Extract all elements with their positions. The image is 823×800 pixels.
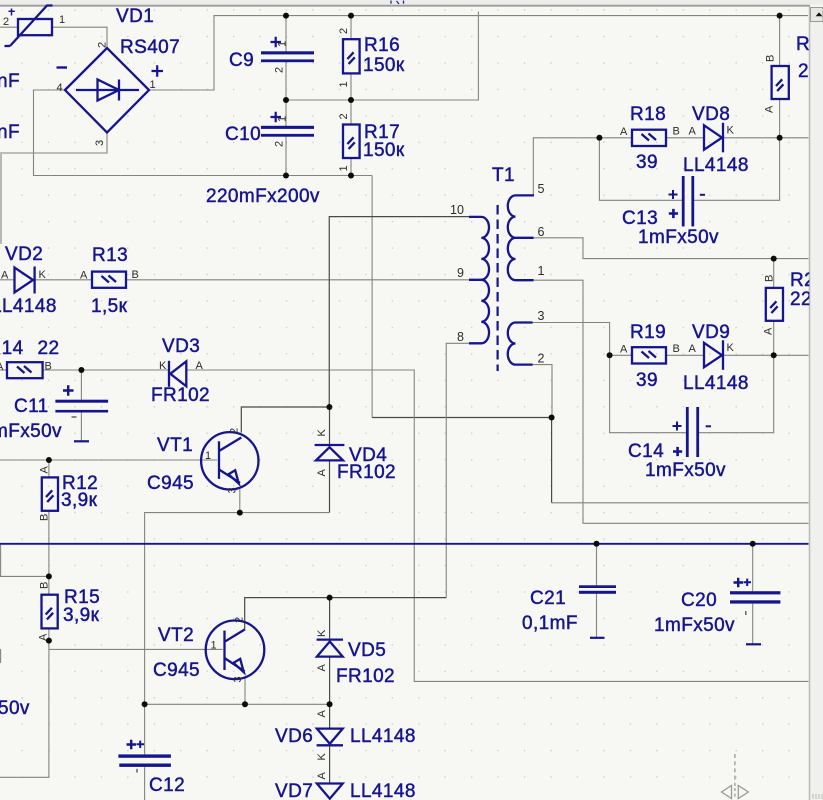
wire: VT1 emitter row	[145, 513, 330, 705]
svg-text:B: B	[132, 269, 139, 281]
wire: R13 to T1 pin9	[126, 279, 469, 281]
svg-text:39: 39	[636, 152, 658, 173]
wire: bottom rail corner down to pin2 row	[371, 176, 373, 418]
node R15/VT2 base	[46, 638, 52, 644]
wire: VT1 collector to node	[241, 407, 329, 433]
svg-text:2: 2	[538, 352, 545, 366]
resistor R16	[338, 28, 405, 88]
wire: C20 bottom lead	[752, 604, 754, 644]
svg-text:2: 2	[3, 16, 9, 28]
svg-text:2: 2	[229, 428, 241, 434]
svg-text:RS407: RS407	[120, 37, 180, 58]
svg-text:1: 1	[211, 640, 217, 652]
wire: C9 top lead	[285, 16, 287, 52]
svg-text:VD2: VD2	[5, 244, 43, 265]
wire: R18 row segments	[599, 137, 632, 139]
svg-text:B: B	[673, 343, 680, 355]
svg-text:C9: C9	[229, 50, 254, 71]
resistor R20 (clipped at right)	[764, 34, 811, 113]
wire: T1 pin5 to R18 junction	[533, 138, 599, 196]
svg-text:2: 2	[234, 617, 246, 623]
capacitor C14	[628, 407, 726, 481]
svg-text:C11: C11	[14, 396, 49, 417]
svg-text:R13: R13	[92, 245, 128, 266]
wire: R12 top lead	[48, 460, 50, 477]
svg-text:FR102: FR102	[336, 666, 395, 687]
wire: R19 row segments	[610, 354, 632, 356]
svg-text:B: B	[39, 514, 51, 521]
node VT1 emitter	[237, 510, 243, 516]
wire: C21 bottom lead	[596, 594, 598, 637]
svg-text:C13: C13	[622, 208, 658, 229]
wire: VT1 emitter lead	[239, 489, 241, 512]
svg-text:VD8: VD8	[692, 104, 730, 125]
wire: C10 bottom lead	[285, 136, 287, 176]
node rail/C21	[594, 541, 600, 547]
svg-text:VD5: VD5	[348, 640, 386, 661]
wire: thermistor to bridge pin2	[52, 27, 107, 48]
wire: R16 bottom lead	[350, 73, 352, 100]
top toolbar band	[0, 0, 823, 5]
svg-text:LL4148: LL4148	[0, 296, 57, 317]
svg-text:T1: T1	[492, 165, 515, 186]
wire: VD6 to VD7	[329, 747, 331, 784]
power rail (blue) y=543.8	[0, 543, 809, 545]
svg-text:1: 1	[338, 165, 350, 171]
svg-text:B: B	[45, 361, 52, 373]
bridge rectifier VD1	[57, 6, 181, 146]
svg-text:A: A	[689, 126, 697, 138]
node VD8 cathode	[777, 135, 783, 141]
capacitor C20	[654, 578, 780, 636]
svg-text:K: K	[159, 360, 167, 372]
svg-text:K: K	[727, 125, 735, 137]
svg-text:LL4148: LL4148	[683, 155, 749, 176]
wire: R14 to VD3	[43, 369, 168, 371]
svg-text:9: 9	[457, 266, 464, 280]
wire: mains input to thermistor	[0, 26, 18, 28]
svg-text:C12: C12	[149, 775, 185, 796]
node C12	[142, 701, 148, 707]
wire: VT1 base row	[0, 459, 217, 461]
wire: VD5 bottom lead	[329, 657, 331, 705]
svg-text:nF: nF	[0, 71, 20, 92]
svg-text:VT1: VT1	[157, 435, 193, 456]
svg-text:2: 2	[338, 28, 350, 34]
wire: left edge stub upper	[0, 545, 2, 577]
thermistor RK (top-left)	[3, 6, 65, 47]
svg-text:A: A	[316, 664, 328, 672]
scrollbar bottom grip	[813, 794, 822, 799]
wire: R17 bottom lead	[350, 158, 352, 176]
capacitor C11	[0, 385, 108, 442]
svg-text:22: 22	[38, 338, 60, 359]
wire: R15 bottom down to bottom left	[0, 629, 49, 778]
wire: bridge pin1 up to top rail	[149, 16, 808, 90]
svg-text:2: 2	[97, 42, 109, 48]
svg-text:B: B	[765, 55, 777, 62]
svg-text:FR102: FR102	[151, 385, 210, 406]
svg-text:R16: R16	[364, 35, 400, 56]
svg-text:1mFx50v: 1mFx50v	[638, 227, 719, 248]
T1 core (dashed)	[497, 205, 499, 371]
svg-text:VD7: VD7	[275, 781, 313, 800]
wire: R20 bottom to VD8 row	[779, 99, 781, 138]
svg-text:3: 3	[232, 676, 244, 682]
wire: VT2 emitter lead	[244, 678, 246, 704]
wire: left edge vertical	[0, 154, 2, 244]
transistor VT2 (C945)	[153, 617, 264, 683]
svg-text:B: B	[39, 582, 51, 589]
wire: VD3 anode to right, down, and bottom rail y=681	[186, 370, 808, 681]
svg-text:A: A	[316, 469, 328, 477]
svg-text:5: 5	[538, 182, 545, 196]
wire: R16 top lead	[350, 16, 352, 40]
svg-text:50v: 50v	[0, 698, 30, 719]
svg-text:R19: R19	[630, 322, 666, 343]
svg-text:220mFx200v: 220mFx200v	[206, 186, 320, 207]
node top rail / C9	[283, 13, 289, 19]
svg-text:A: A	[763, 327, 775, 335]
clipped text in toolbar band	[391, 1, 404, 5]
svg-text:C14: C14	[628, 441, 664, 462]
wire: VT2 base row	[49, 648, 223, 650]
node bottom rail / C10	[283, 173, 289, 179]
svg-text:8: 8	[457, 330, 464, 344]
resistor R18	[620, 104, 680, 173]
right scrollbar track	[810, 7, 823, 800]
resistor R12	[39, 466, 99, 522]
wire: C12 top lead	[144, 704, 146, 754]
T1 primary winding pins 10-9-8	[469, 217, 489, 280]
diode VD4 (cathode up)	[315, 429, 396, 484]
svg-text:0,1mF: 0,1mF	[522, 613, 578, 634]
wire: T1 pin2 net down and right along y=503	[551, 418, 553, 503]
svg-text:B: B	[673, 126, 680, 138]
svg-text:150к: 150к	[363, 55, 405, 76]
capacitor C10	[225, 112, 314, 147]
node VT2 emitter	[242, 701, 248, 707]
svg-text:39: 39	[636, 370, 658, 391]
svg-text:R14: R14	[0, 338, 24, 359]
wire: mid rail y=100 rising to top	[286, 12, 478, 101]
transistor VT1 (C945)	[147, 428, 259, 494]
wire: VT2 emitter row	[145, 703, 330, 705]
resistor R17	[338, 113, 405, 171]
capacitor C9	[229, 37, 314, 73]
svg-text:3: 3	[538, 309, 545, 323]
resistor R21 (clipped at right)	[763, 270, 816, 335]
wire: rail to T1 pin10 and down to VT1 collector node	[329, 217, 469, 407]
node VT2 collector/VD5	[327, 595, 333, 601]
resistor R14	[0, 338, 59, 378]
svg-text:A: A	[764, 105, 776, 113]
node bottom rail / R17	[348, 173, 354, 179]
node VD9 cathode	[771, 352, 777, 358]
T1 winding pins 3-2	[508, 323, 533, 365]
svg-text:A: A	[316, 710, 328, 718]
svg-text:3: 3	[94, 140, 106, 146]
wire: VD2 cathode to R13	[36, 279, 93, 281]
capacitor C13	[622, 176, 719, 248]
wire: VD9 junction down to C14 loop	[610, 355, 687, 432]
diode VD8	[683, 104, 749, 176]
cursor marker (bottom right)	[722, 754, 749, 799]
svg-text:K: K	[316, 753, 328, 761]
svg-text:B: B	[764, 275, 776, 282]
transformer T1	[450, 165, 545, 371]
node R21 top	[771, 256, 777, 262]
scrollbar up button	[811, 8, 823, 22]
wire: VD6 top lead	[329, 704, 331, 728]
node mid rail / C9-C10	[283, 97, 289, 103]
svg-text:3,9к: 3,9к	[63, 605, 100, 626]
svg-text:nF: nF	[0, 122, 20, 143]
capacitor C12	[118, 740, 185, 796]
svg-text:1: 1	[338, 81, 350, 87]
C11 open end bar	[74, 440, 89, 442]
resistor R13	[80, 245, 139, 317]
wire: VD8 junction down to C13 loop	[694, 138, 780, 201]
wire: VD5 top lead	[329, 598, 331, 639]
svg-text:150к: 150к	[363, 140, 405, 161]
svg-text:C945: C945	[147, 473, 194, 494]
node R12-R15	[46, 573, 52, 579]
node mid rail / R16-R17	[348, 97, 354, 103]
svg-text:22: 22	[790, 289, 812, 310]
wire: C14 right plate up to VD9 cathode node	[698, 355, 774, 432]
svg-text:1mFx50v: 1mFx50v	[0, 421, 62, 442]
wire: left edge small stub	[0, 649, 2, 663]
svg-text:VD9: VD9	[692, 322, 730, 343]
svg-text:C20: C20	[681, 590, 717, 611]
svg-text:1: 1	[150, 79, 156, 91]
node VT1 collector/VD4	[326, 404, 332, 410]
wire: top rail down to R20	[779, 16, 781, 66]
capacitor C21	[522, 585, 616, 634]
svg-text:1: 1	[205, 450, 211, 462]
svg-text:3,9к: 3,9к	[61, 490, 98, 511]
svg-text:A: A	[196, 360, 204, 372]
wire: T1 pin3 down to VD9 row	[533, 323, 610, 356]
svg-text:LL4148: LL4148	[683, 373, 749, 394]
svg-text:1: 1	[277, 41, 289, 47]
wire: C11 bottom lead	[80, 412, 82, 440]
diode VD2	[0, 244, 57, 317]
node VT1 base/R12	[46, 457, 52, 463]
node R19 input	[607, 352, 613, 358]
svg-text:A: A	[620, 126, 628, 138]
node VD5/VD6	[327, 701, 333, 707]
wire: bridge pin3 return	[0, 133, 107, 154]
diode VD9	[683, 322, 749, 394]
svg-text:VD1: VD1	[116, 6, 154, 27]
wire: C10 top lead	[285, 100, 287, 126]
node R14/C11	[78, 367, 84, 373]
C21 open end bar	[590, 637, 605, 639]
wire: C13 left plate back up to R18 input	[599, 138, 683, 201]
wire: y=576 stub to left edge	[0, 575, 49, 577]
svg-text:2: 2	[274, 67, 286, 73]
resistor R19	[620, 322, 680, 391]
wire: C21 top lead	[596, 544, 598, 586]
svg-text:VD3: VD3	[162, 336, 200, 357]
wire: R14 left stub	[0, 369, 7, 371]
wire: R21 bottom lead	[773, 321, 775, 356]
svg-text:2: 2	[274, 141, 286, 147]
svg-text:R18: R18	[630, 104, 666, 125]
svg-text:10: 10	[450, 203, 464, 217]
wire: VD4 top lead	[329, 407, 331, 444]
svg-text:2: 2	[798, 61, 809, 82]
node top rail / R16	[348, 13, 354, 19]
svg-text:1: 1	[277, 116, 289, 122]
wire: R17 top lead	[350, 100, 352, 125]
svg-text:LL4148: LL4148	[350, 726, 416, 747]
resistor R15	[38, 582, 101, 641]
svg-text:A: A	[620, 344, 628, 356]
svg-text:1mFx50v: 1mFx50v	[645, 460, 726, 481]
svg-text:C10: C10	[225, 124, 261, 145]
svg-text:A: A	[39, 466, 51, 474]
diode VD7 (cathode down, clipped)	[275, 772, 416, 800]
node R18 input	[596, 135, 602, 141]
svg-text:2: 2	[338, 113, 350, 119]
svg-text:1,5к: 1,5к	[91, 296, 128, 317]
C20 open end bar	[746, 643, 761, 645]
diode VD5 (cathode up)	[316, 629, 395, 687]
svg-text:VT2: VT2	[158, 625, 194, 646]
svg-text:A: A	[38, 633, 50, 641]
svg-text:A: A	[1, 270, 9, 282]
wire: R12 bottom through rail to R15	[48, 511, 50, 595]
svg-text:1mFx50v: 1mFx50v	[654, 615, 735, 636]
wire: T1 pin1 down to y=523 rail	[534, 280, 809, 523]
T1 secondary winding pins 5-6-1	[508, 195, 534, 237]
svg-text:3: 3	[227, 487, 239, 493]
svg-text:A: A	[316, 772, 328, 780]
svg-text:1: 1	[538, 264, 545, 278]
wire: R21 top lead	[773, 259, 775, 288]
wire: C20 top lead	[752, 544, 754, 591]
node T1 pin2 net	[549, 415, 555, 421]
node rail/C20	[750, 541, 756, 547]
svg-text:6: 6	[538, 225, 545, 239]
wire: VD4 bottom lead to emitter row	[329, 461, 331, 513]
wire: C11 top lead	[80, 370, 82, 400]
svg-text:K: K	[316, 629, 328, 637]
svg-text:K: K	[39, 269, 47, 281]
wire: T1 pin8 down to VT2 collector row	[446, 343, 469, 597]
svg-text:A: A	[80, 270, 88, 282]
wire: bridge pin4 loop to bottom rail	[34, 90, 373, 176]
svg-text:K: K	[316, 429, 328, 437]
wire: T1 pin2 to pin2-net vertical	[533, 365, 552, 418]
svg-text:R: R	[796, 34, 810, 55]
wire: C9 bottom lead	[285, 61, 287, 100]
wire: C12 bottom lead off page	[144, 767, 146, 800]
svg-text:4: 4	[57, 82, 63, 94]
svg-text:C21: C21	[530, 588, 566, 609]
diode VD3 (pointing left)	[151, 336, 210, 406]
svg-text:1: 1	[59, 14, 65, 26]
svg-text:A: A	[689, 343, 697, 355]
svg-text:LL4148: LL4148	[350, 781, 416, 800]
svg-text:C945: C945	[153, 660, 200, 681]
wire: T1 pin6 to R21 rail	[534, 238, 809, 259]
diode VD6 (cathode down)	[275, 710, 416, 761]
node top rail / R20	[777, 13, 783, 19]
svg-text:K: K	[727, 342, 735, 354]
svg-text:FR102: FR102	[337, 462, 396, 483]
wire: VD2 anode from edge	[0, 279, 15, 281]
svg-text:VD6: VD6	[275, 726, 313, 747]
